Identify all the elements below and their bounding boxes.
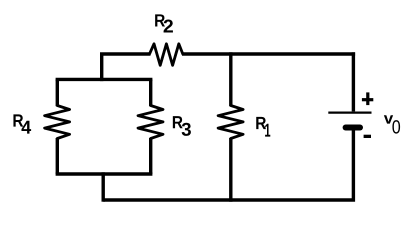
wire parallel box top [56,78,153,81]
wire right branch upper [149,79,152,106]
wire top-left stub and top rail left segment [102,54,151,81]
wire top rail right segment down to battery [182,52,355,111]
battery plus sign [362,92,373,105]
wire from battery to bottom rail and bottom stub [103,130,353,201]
wire R1 branch lower [229,138,232,202]
resistor R2 [150,44,183,66]
label R4 [13,114,31,133]
wire R1 branch upper [229,52,232,106]
resistor R1 [218,106,243,139]
label R2 [155,14,173,32]
resistor R3 [138,106,163,139]
label R3 [173,116,191,136]
wire left branch upper [56,79,59,106]
label v0 [384,115,400,133]
battery V0 top plate (+) [328,111,371,113]
battery minus sign [364,135,371,138]
wire right branch lower [149,138,152,174]
battery V0 bottom plate (-) [346,125,360,131]
label R1 [256,117,270,137]
wire parallel box bottom [56,172,153,175]
wire left branch lower [56,138,59,174]
resistor R4 [45,106,70,139]
